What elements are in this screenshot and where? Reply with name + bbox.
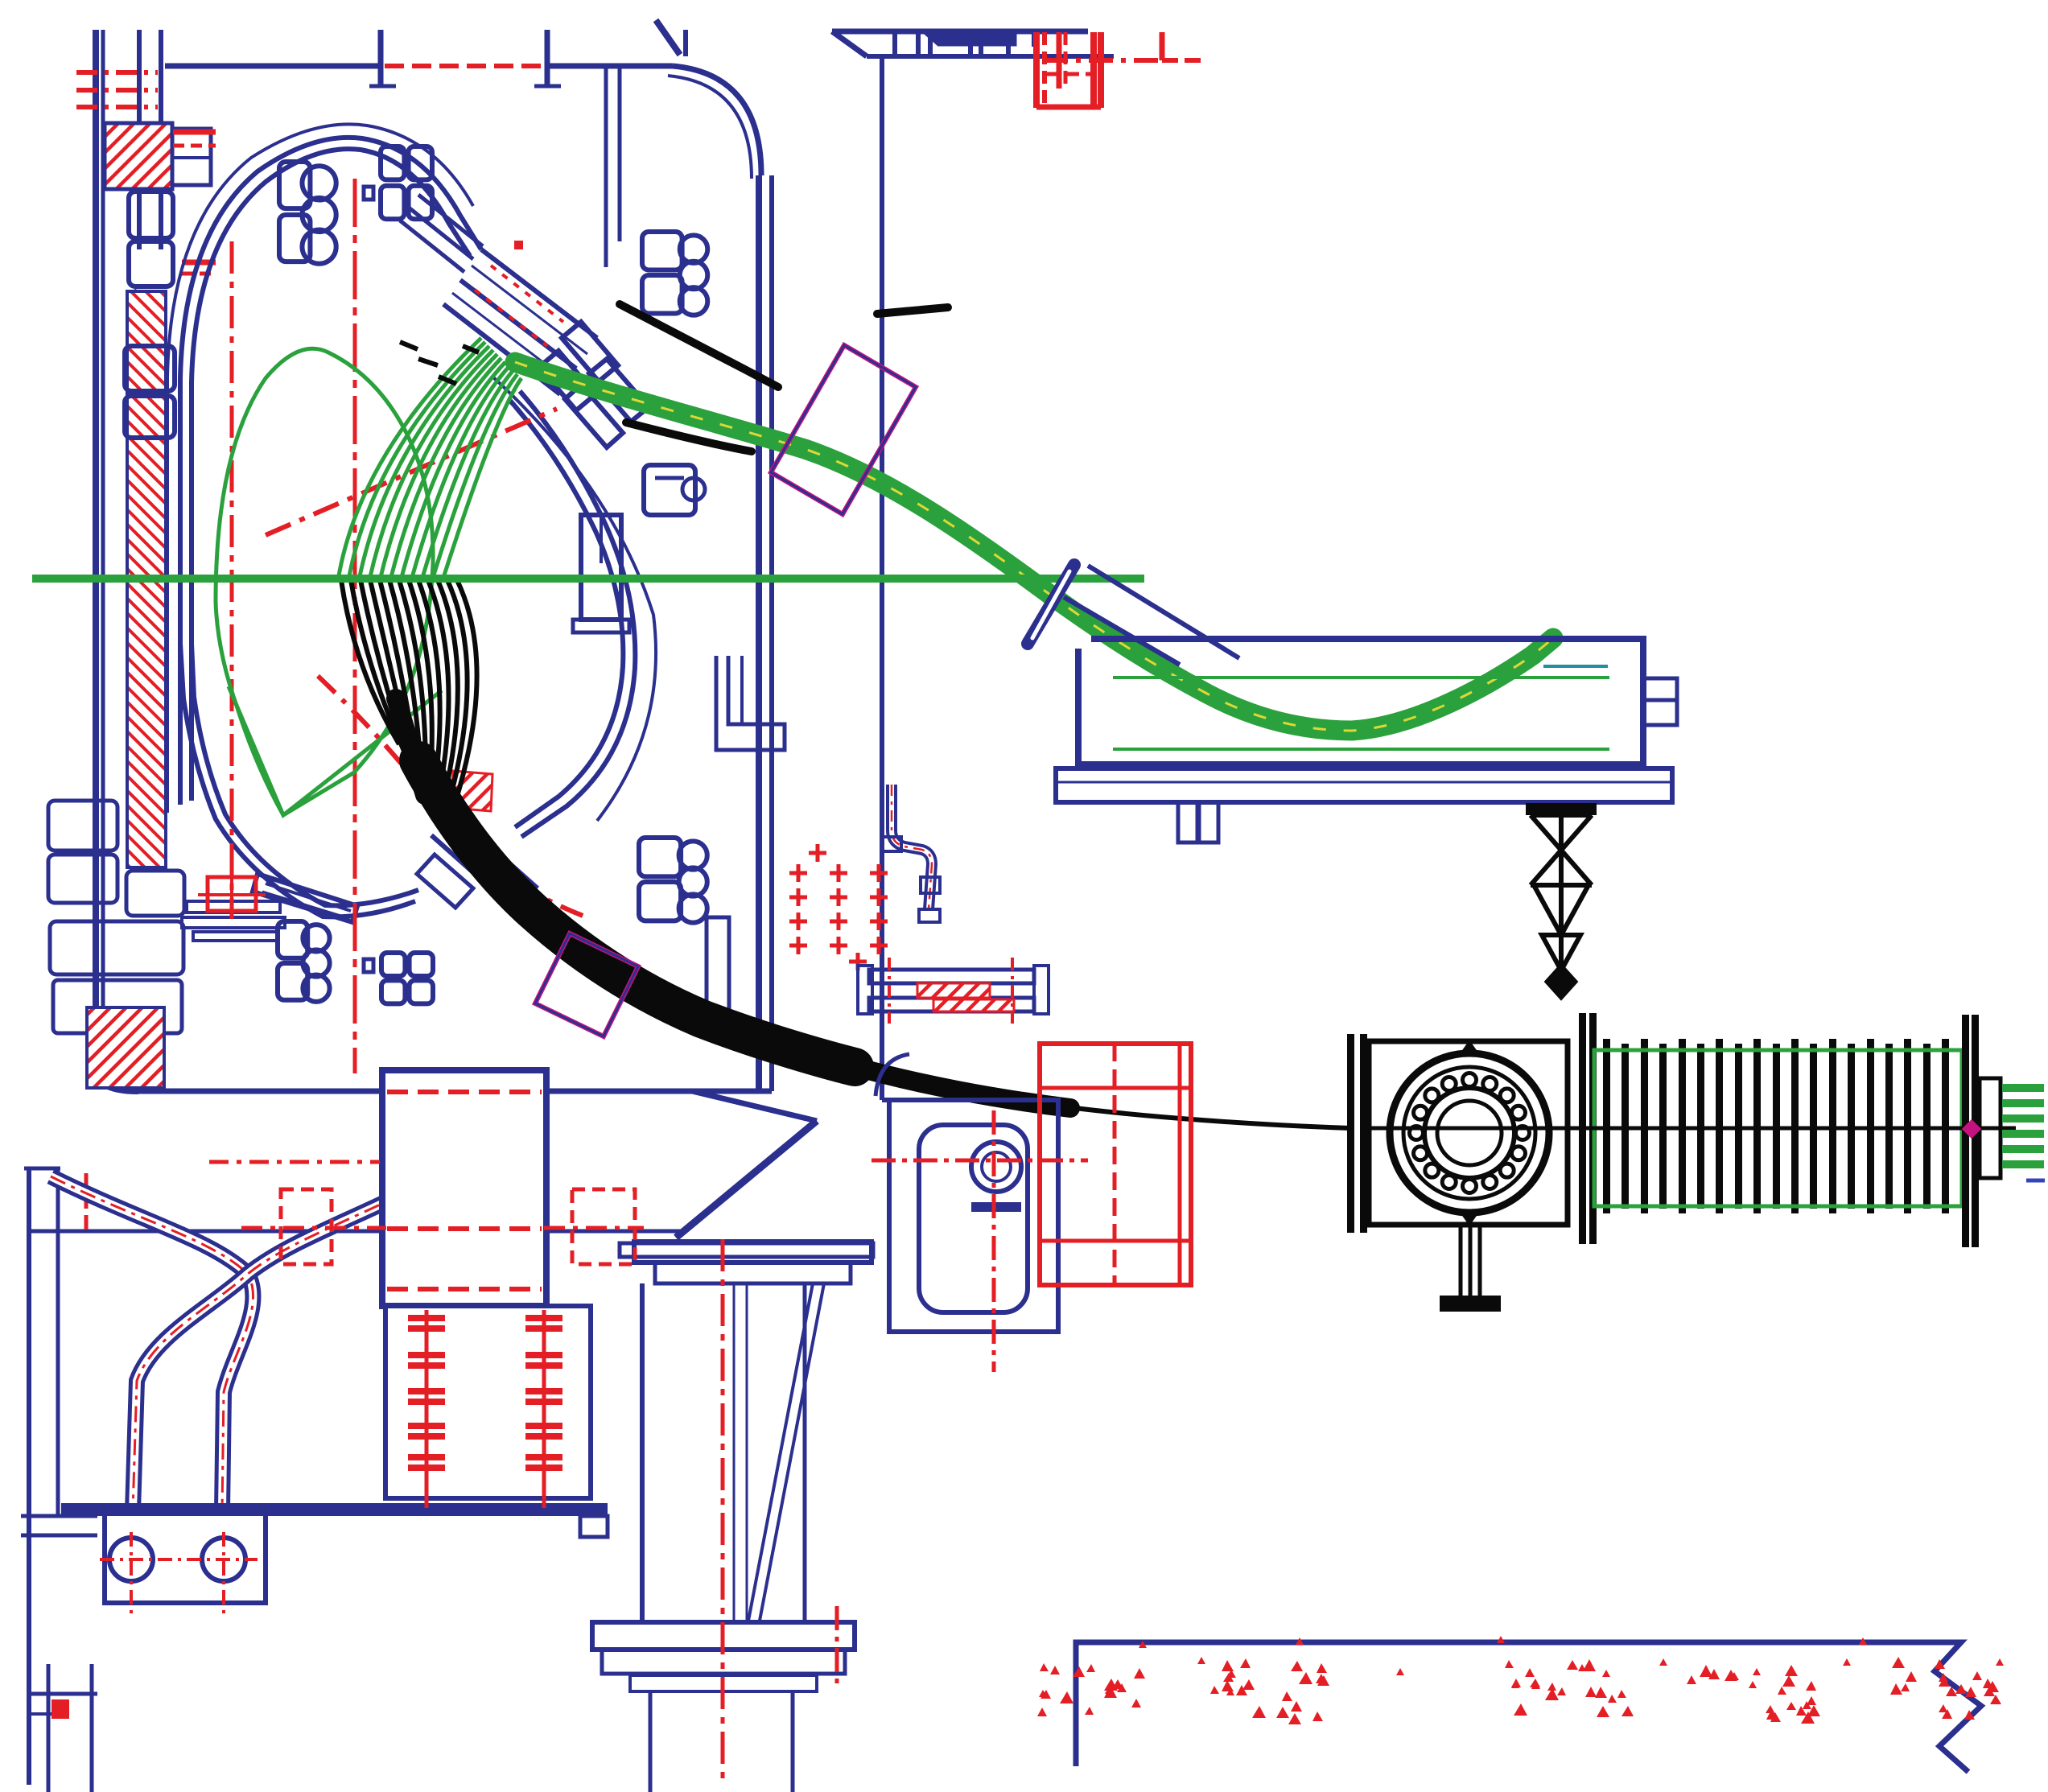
green neutral beam band	[515, 362, 1553, 731]
NPA bearing mid ring	[1403, 1067, 1535, 1199]
black sightline fan	[341, 580, 477, 812]
pedestal diagonal brace	[748, 1283, 824, 1621]
pedestal plate 3	[655, 1263, 851, 1283]
left bottom step	[31, 1664, 97, 1792]
vessel outer wall upper-left	[180, 138, 481, 805]
tiny coil square lower	[364, 959, 373, 972]
hall frame top edge	[832, 29, 1088, 35]
dump box teal segment	[1543, 665, 1608, 668]
red bolt line upper	[173, 132, 216, 146]
red vertical centerline A	[230, 241, 234, 919]
upper port red hatch ticks	[475, 266, 563, 346]
red dash-dot row through	[241, 1226, 644, 1230]
red dash row mid-left	[209, 1160, 380, 1164]
NPA bearing balls	[1410, 1073, 1530, 1193]
black duct edge upper	[620, 304, 778, 387]
dump box outline	[1078, 639, 1643, 764]
floor slab outline	[1076, 1642, 1981, 1772]
pedestal flange low	[630, 1675, 817, 1691]
NPA cooling fins	[1603, 1039, 1949, 1213]
machine base box B1	[382, 1070, 546, 1306]
vessel outer wall bottom	[180, 644, 415, 917]
cable tube B	[133, 1176, 439, 1511]
NPA top tick	[1461, 1043, 1477, 1054]
dump box foot	[1178, 802, 1218, 842]
upper port wall A	[481, 249, 597, 338]
NPA blue tick	[2026, 1179, 2045, 1183]
bracket hook	[876, 1054, 909, 1096]
NPA left flange	[1347, 1034, 1367, 1233]
vessel outer wall right	[520, 391, 635, 837]
left column lower block 1	[126, 871, 184, 916]
green sightline fan	[338, 338, 521, 580]
TF support pad	[858, 958, 1049, 1024]
NPA magenta diamond	[1964, 1121, 1980, 1137]
conduit fittings	[882, 837, 940, 922]
frame tick 4	[1006, 31, 1011, 56]
cable tube A	[51, 1176, 253, 1511]
black duct edge upper2	[877, 307, 948, 314]
L-bracket heat shield	[716, 656, 785, 750]
NPA green liner rect	[1594, 1050, 1962, 1206]
shield pillar	[707, 917, 729, 1038]
red anchor bolts	[408, 1310, 562, 1508]
bracket dark bar	[971, 1202, 1021, 1212]
lower port inner line	[441, 824, 528, 901]
top port stub	[369, 30, 561, 86]
concrete triangles	[1037, 1636, 2004, 1724]
pedestal flange mid	[602, 1650, 845, 1674]
pulley right	[202, 1538, 245, 1581]
dump box inner green line lower	[1113, 748, 1609, 751]
pedestal plate 1	[634, 1242, 872, 1263]
port mouth black dashes	[400, 342, 479, 384]
mirror box upper (tilted)	[771, 345, 916, 514]
divertor support plates	[182, 901, 285, 941]
pulley red crosslines	[100, 1532, 258, 1619]
pedestal flange top	[592, 1622, 855, 1650]
left wall ticks	[21, 1168, 97, 1535]
tiny coil square	[364, 187, 373, 200]
bracket outline	[882, 1100, 1058, 1332]
red dash-dot feeder lines top-left	[76, 72, 158, 107]
upper port wall B	[460, 280, 576, 369]
red flange box v2	[1178, 1044, 1182, 1285]
pedestal inner lines	[734, 1283, 747, 1622]
black beam thin line	[1062, 1106, 1350, 1128]
NPA axis line	[1360, 1127, 2016, 1131]
red survey cross field	[789, 844, 888, 970]
CS coil segment 1	[129, 192, 173, 238]
frame tick 2	[918, 30, 930, 56]
dump box support plate	[1056, 768, 1672, 802]
NPA flange right of box	[1579, 1013, 1597, 1244]
red diagonal sightline upper	[266, 409, 557, 535]
upper baffle lines	[400, 195, 483, 272]
gate valve tilted flange	[1028, 565, 1074, 644]
thermal shield outer line	[167, 124, 473, 813]
red crane rail vertical pair C	[1094, 32, 1101, 108]
pedestal red tick right	[835, 1606, 839, 1683]
black fan merge wedge	[396, 698, 425, 795]
duct wall upper	[1088, 566, 1239, 658]
pedestal legs	[650, 1691, 793, 1792]
NPA bearing outer ring	[1390, 1053, 1549, 1213]
NPA right tall flange	[1962, 1015, 1979, 1247]
lower port wall A	[451, 811, 538, 888]
left wall lower	[29, 1168, 58, 1785]
lower port wall B	[431, 835, 518, 912]
red small dot	[515, 241, 522, 249]
CS coil segment 2	[129, 241, 173, 286]
vessel inner wall right	[510, 401, 623, 827]
frame thick bar	[925, 34, 1016, 45]
pedestal left wall	[640, 1283, 645, 1622]
upper port flange plate A	[562, 322, 618, 381]
cryostat lid line	[165, 64, 673, 69]
red vertical centerline B	[353, 179, 357, 1073]
NPA stand foot	[1440, 1296, 1501, 1312]
vertical port duct walls	[606, 68, 620, 267]
frame tick 5	[1032, 31, 1036, 47]
cryostat corner arc	[668, 66, 761, 179]
thermal shield right arc	[492, 377, 656, 821]
support step block	[172, 129, 211, 185]
black beam band taper	[845, 1064, 1070, 1108]
NPA bearing inner ring	[1424, 1088, 1514, 1178]
plasma X-point green vee	[229, 686, 442, 815]
cryostat right wall	[759, 175, 772, 1091]
floor beam step	[580, 1516, 608, 1537]
duct wall lower	[1064, 597, 1180, 665]
dump box inner green line upper	[1113, 676, 1609, 679]
NPA stand stem	[1461, 1225, 1480, 1296]
machine centerline left wall	[96, 30, 103, 1070]
plasma boundary contour	[216, 348, 433, 815]
hall frame chamfer	[832, 31, 867, 56]
hall frame left chamfer	[656, 20, 686, 56]
pedestal diagonal edge	[676, 1121, 817, 1238]
PF coil block left mid1	[125, 346, 175, 391]
red small square	[52, 1699, 69, 1719]
red flange box inner lines	[1040, 1044, 1191, 1285]
red dashed boxes flanking	[281, 1189, 635, 1264]
left column lower block 5	[53, 980, 182, 1033]
machine base box B2	[385, 1306, 591, 1498]
NPA bottom tick	[1461, 1212, 1477, 1223]
lower port red hatch patch	[451, 771, 492, 811]
left column lower block 3	[48, 855, 117, 903]
outer flange pair	[565, 359, 649, 447]
red crane rail vertical pair B	[1059, 32, 1065, 89]
vessel inner wall bottom	[192, 644, 418, 905]
red flange box outer	[1040, 1044, 1191, 1285]
lower port flange	[417, 855, 473, 908]
dump box right appendage	[1643, 678, 1677, 725]
bracket circle	[971, 1142, 1021, 1192]
left column lower block 4	[50, 921, 183, 974]
green midplane line	[32, 575, 1144, 583]
divertor red frame	[198, 869, 266, 919]
red hatched lower support	[87, 1007, 164, 1088]
upper port inner lines	[452, 266, 587, 381]
PF coil cluster lower-mid 88	[381, 953, 433, 1003]
pulley block	[105, 1514, 266, 1603]
frame tick 1	[892, 31, 897, 56]
cryostat bottom-left corner arc	[96, 1070, 138, 1091]
PF coil cluster right-mid	[644, 465, 705, 515]
red hatched CS strip	[127, 291, 166, 867]
PF coil cluster right-upper	[642, 232, 707, 315]
hall frame lower edge	[867, 54, 1114, 59]
CS clamp profile	[133, 290, 142, 338]
hall column vertical	[880, 56, 884, 1100]
cryostat bottom line	[138, 1089, 772, 1094]
PF coil block left mid2	[125, 396, 175, 438]
NPA bearing bore	[1437, 1101, 1502, 1165]
bracket red h-centerline	[872, 1159, 1088, 1163]
red tick left	[84, 1173, 89, 1233]
vessel inner wall upper-left	[192, 149, 470, 801]
NPA green connector comb	[2002, 1084, 2044, 1168]
floor beam	[61, 1503, 608, 1516]
upper port wall C	[443, 304, 560, 394]
red dashed lid joint	[385, 64, 546, 68]
left column lower block 2	[48, 801, 117, 851]
pedestal plate 2	[620, 1243, 873, 1257]
bracket red v-centerline	[992, 1110, 996, 1372]
red bolt line lower	[182, 262, 216, 274]
red crane rail horizontal	[1036, 32, 1201, 107]
red diagonal sightline lower	[318, 676, 591, 919]
frame tick 3	[970, 30, 981, 56]
yellow beam center dashes	[515, 362, 1553, 731]
pedestal right wall	[803, 1283, 807, 1622]
red hatched gravity support block	[105, 123, 172, 189]
conduit pipe	[892, 785, 932, 909]
divertor cassette body	[253, 874, 357, 922]
PF coil cluster lower-left tall	[278, 921, 330, 1002]
PF coil cluster top-left	[279, 162, 336, 264]
NPA box	[1369, 1041, 1568, 1225]
screw jack	[1526, 803, 1597, 998]
PF coil cluster top-mid 88	[381, 146, 432, 219]
black duct edge lower	[626, 422, 752, 451]
platform line	[27, 1230, 684, 1234]
bracket inner rounded rect	[919, 1125, 1028, 1312]
pedestal red centerline	[721, 1239, 725, 1780]
inner column line B	[159, 30, 163, 249]
B1 red dashed rows	[387, 1092, 542, 1289]
NPA right end box	[1980, 1078, 2001, 1178]
inner wall support channel	[573, 515, 629, 632]
mirror box lower A (tilted)	[535, 933, 638, 1036]
PF coil cluster lower-right	[639, 838, 707, 923]
inner column line A	[137, 30, 142, 249]
pulley left	[109, 1538, 153, 1581]
red crane rail vertical pair A	[1036, 32, 1045, 108]
upper port flange plate B	[539, 351, 595, 410]
cryostat leg curve	[692, 1091, 817, 1121]
black beam band thick	[418, 760, 855, 1067]
